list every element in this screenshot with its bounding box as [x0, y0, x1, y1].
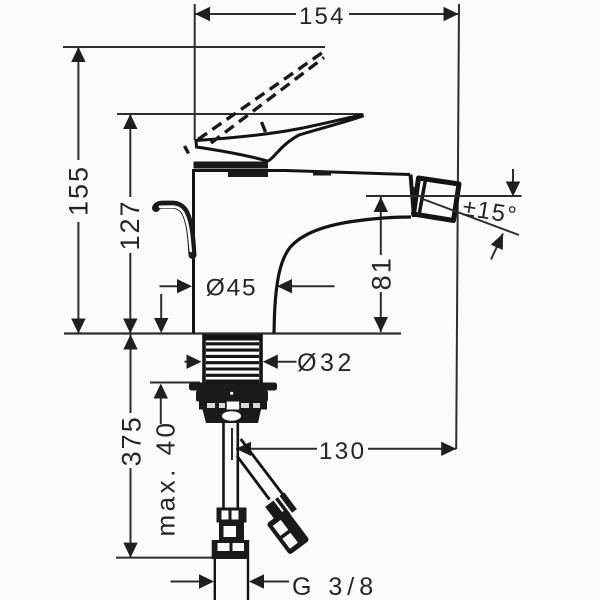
handle skirt (dark band): [194, 162, 269, 169]
svg-text:G 3/8: G 3/8: [292, 573, 378, 600]
vertical hose fitting mid: [219, 523, 244, 541]
angled hose line lower: [237, 456, 270, 500]
dim 154 line: [195, 13, 296, 15]
svg-text:375: 375: [117, 415, 147, 466]
vertical hose nut: [217, 508, 247, 523]
aerator ring divider: [420, 180, 426, 213]
dim G3/8 left arrow: [171, 581, 201, 583]
svg-text:max. 40: max. 40: [151, 420, 181, 537]
angle slanted line: [420, 198, 519, 235]
dim O45 right arrow: [291, 285, 335, 287]
faucet body right curve into spout underside: [274, 217, 411, 333]
faucet body top edge / spout top: [192, 171, 410, 175]
vertical hose wall right: [237, 423, 240, 508]
svg-text:Ø45: Ø45: [206, 275, 258, 302]
vertical hose hex end: [212, 540, 250, 559]
aerator hinge bracket: [412, 187, 418, 214]
dim 81 arrow top: [374, 197, 388, 212]
handle dashed back dash: [185, 146, 189, 154]
extension line 375 bottom (y=557.6): [116, 557, 213, 559]
handle dashed raised position line 2: [211, 58, 324, 144]
dim O45 left arrow: [160, 285, 179, 287]
threaded shank right wall: [259, 334, 263, 383]
dim 375 line: [130, 335, 132, 414]
svg-text:130: 130: [319, 438, 366, 465]
angled hose line upper: [241, 439, 287, 500]
pop-up rod lever: [156, 205, 193, 255]
extension line handle tip level (127 dim, y=114): [117, 113, 362, 115]
dim 155 line: [77, 47, 79, 160]
angled hose nut: [264, 491, 298, 525]
G3/8 threaded pipe walls: [214, 559, 216, 600]
faucet body left edge: [192, 169, 195, 333]
horseshoe washer: [196, 391, 268, 402]
dim 375 arrow top: [123, 335, 137, 350]
dim max40 upper arrow: [160, 294, 162, 319]
mounting flange bar: [189, 383, 277, 391]
dim max40 lower arrow: [160, 398, 162, 424]
svg-text:81: 81: [366, 256, 396, 290]
escutcheon step under handle: [228, 171, 268, 177]
dim G3/8 right arrow: [263, 581, 289, 583]
dim 81 arrow bottom: [374, 317, 388, 332]
dim 130 arrow left: [236, 442, 251, 456]
threaded shank left wall: [202, 334, 206, 383]
extension line right vertical (x=459 to 456): [456, 4, 459, 449]
aerator body (tilted): [414, 178, 460, 221]
extension line left vertical (x=195): [194, 4, 196, 140]
set screw detail near spout: [313, 171, 331, 176]
handle dashed end cap dash: [262, 122, 266, 132]
dim 154 arrow right: [444, 7, 459, 21]
dim O32 right arrow: [276, 361, 297, 363]
dim O32 left arrow: [185, 361, 189, 363]
angle ref centerline: [366, 195, 522, 197]
hose coupling piece: [203, 410, 262, 424]
dim 155 arrow top: [71, 47, 85, 62]
extension line top of faucet (155 dim, y=47): [63, 46, 325, 48]
dim 130 line: [236, 448, 317, 450]
svg-text:Ø32: Ø32: [297, 349, 355, 377]
shank threads: [205, 335, 260, 341]
svg-text:127: 127: [115, 199, 145, 250]
knurled mounting nut: [199, 402, 267, 410]
svg-text:154: 154: [299, 3, 346, 30]
dim 155 arrow bottom: [71, 319, 85, 334]
vertical hose wall left: [222, 423, 225, 508]
angle down arrow: [512, 169, 514, 182]
dim 154 arrow left: [195, 7, 210, 21]
handle lever outline: [196, 115, 362, 161]
dim 81 line: [380, 197, 382, 255]
dim 127 arrow bottom: [123, 319, 137, 334]
dim 127 arrow top: [123, 114, 137, 129]
angled hose end fitting: [266, 509, 309, 555]
handle dashed raised position line 1: [198, 53, 323, 140]
deck / mounting surface line: [64, 332, 401, 334]
angle slant arrow: [491, 234, 503, 260]
dim 127 line: [129, 114, 131, 197]
extension line max40 bottom (y=382.5): [150, 382, 200, 384]
dim 375 arrow bottom: [123, 543, 137, 558]
svg-text:155: 155: [64, 165, 94, 216]
spout end face: [411, 175, 415, 218]
vertical hose inner line: [231, 428, 233, 460]
dim 130 arrow right: [441, 442, 456, 456]
